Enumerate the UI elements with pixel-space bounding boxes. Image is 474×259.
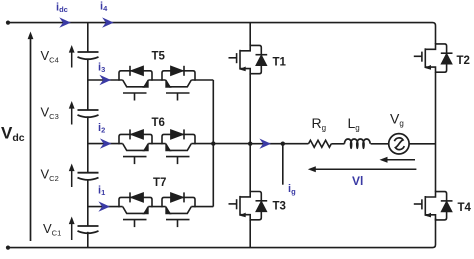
- wire: middle leg lower segment: [249, 220, 251, 248]
- node: phase junction on middle leg: [248, 142, 252, 146]
- svg-text:VC2: VC2: [41, 167, 59, 184]
- wire: bottom DC rail: [8, 218, 436, 247]
- wire: T5 output to connector: [191, 79, 213, 81]
- svg-text:T7: T7: [153, 177, 166, 189]
- svg-text:idc: idc: [56, 2, 68, 15]
- bidirectional switch cell T6: left element: [119, 129, 152, 164]
- wire: T6 middle link: [148, 143, 165, 145]
- svg-text:T4: T4: [458, 202, 472, 214]
- svg-text:Vg: Vg: [390, 111, 404, 129]
- wire: capacitor rail bottom segment: [87, 232, 89, 248]
- svg-text:Vdc: Vdc: [1, 124, 25, 145]
- arrow for VC1 voltage: [69, 217, 75, 241]
- wire: inductor to source: [371, 143, 389, 145]
- wire: right leg between T2 and grid branch: [435, 72, 437, 191]
- wire: T5 middle link: [148, 79, 165, 81]
- node: negative DC terminal dot: [6, 246, 10, 250]
- svg-text:Rg: Rg: [312, 115, 327, 133]
- svg-text:i1: i1: [98, 185, 105, 198]
- capacitor C2: [78, 173, 99, 180]
- node: ig junction dot: [281, 142, 285, 146]
- node: positive DC terminal dot: [6, 21, 10, 25]
- wire: top DC rail: [8, 23, 436, 44]
- svg-text:VC1: VC1: [43, 221, 61, 238]
- wire: T6 output to connector: [191, 143, 213, 145]
- wire: middle leg upper segment: [249, 23, 251, 46]
- arrow: Vl converter voltage: [308, 166, 417, 172]
- svg-text:Lg: Lg: [348, 115, 360, 133]
- bidirectional switch cell T5: right element: [162, 66, 195, 101]
- wire: ig junction to resistor: [283, 143, 309, 145]
- transistor T2: [414, 43, 453, 73]
- bidirectional switch cell T6: right element: [162, 129, 195, 164]
- svg-text:i3: i3: [98, 62, 105, 75]
- svg-text:T5: T5: [152, 51, 166, 63]
- svg-text:T2: T2: [457, 55, 470, 67]
- capacitor C3: [78, 110, 99, 117]
- AC source Vg: [389, 134, 409, 154]
- svg-text:T6: T6: [152, 117, 165, 129]
- wire: T7 output to connector: [191, 206, 213, 208]
- transistor T1: [229, 45, 268, 75]
- current arrow i1: [98, 201, 110, 211]
- wire: phase node to ig junction: [250, 143, 283, 145]
- transistor T4: [414, 191, 453, 221]
- wire: middle leg between phase node and T3: [249, 144, 251, 192]
- node: connector junction at T6 output: [211, 141, 215, 145]
- svg-text:ig: ig: [288, 183, 296, 196]
- wire: connector to middle leg phase node: [213, 143, 250, 145]
- wire: i1 branch from capacitor rail to cell T7: [88, 206, 123, 208]
- svg-text:i2: i2: [98, 122, 105, 135]
- svg-text:VC4: VC4: [41, 48, 59, 65]
- wire: T7 middle link: [148, 206, 165, 208]
- arrow: Vg polarity (short, under source): [380, 157, 416, 163]
- capacitor C1: [78, 226, 99, 233]
- wire: cell output connector vertical: [212, 80, 214, 207]
- bidirectional switch cell T7: right element: [162, 192, 195, 227]
- arrow for VC2 voltage: [69, 164, 75, 188]
- wire: capacitor rail between C4 and i3 node: [87, 60, 89, 110]
- capacitor C4: [78, 52, 99, 59]
- bidirectional switch cell T7: left element: [119, 192, 152, 227]
- wire: source to right leg: [409, 143, 435, 145]
- current arrow idc on top rail: [59, 17, 71, 27]
- wire: ig measurement stub: [282, 144, 284, 185]
- arrow for VC4 voltage: [69, 45, 75, 68]
- resistor Rg: [309, 140, 332, 147]
- svg-text:Vl: Vl: [352, 174, 363, 188]
- current arrow ig branch (phase output): [259, 139, 271, 149]
- svg-text:T3: T3: [273, 200, 286, 212]
- wire: capacitor rail between C2 and i1 node: [87, 179, 89, 226]
- svg-text:VC3: VC3: [41, 105, 59, 122]
- wire: middle leg between T1 and phase node: [249, 74, 251, 144]
- wire: capacitor rail between C3 and i2 node: [87, 116, 89, 172]
- wire: resistor to inductor: [331, 143, 344, 145]
- svg-text:i4: i4: [100, 1, 108, 14]
- transistor T3: [229, 191, 268, 221]
- current arrow i4 on top rail: [102, 17, 114, 27]
- wire: i2 branch from capacitor rail to cell T6: [88, 143, 123, 145]
- current arrow i3: [99, 75, 111, 85]
- Vdc measurement arrow: [28, 32, 34, 242]
- inductor Lg: [344, 139, 370, 148]
- current arrow i2: [100, 138, 112, 148]
- wire: i3 branch from capacitor rail to cell T5: [88, 79, 123, 81]
- svg-text:T1: T1: [273, 57, 287, 69]
- wire: capacitor string rail top segment: [87, 23, 89, 52]
- arrow for VC3 voltage: [69, 101, 75, 125]
- bidirectional switch cell T5: left element: [119, 66, 152, 101]
